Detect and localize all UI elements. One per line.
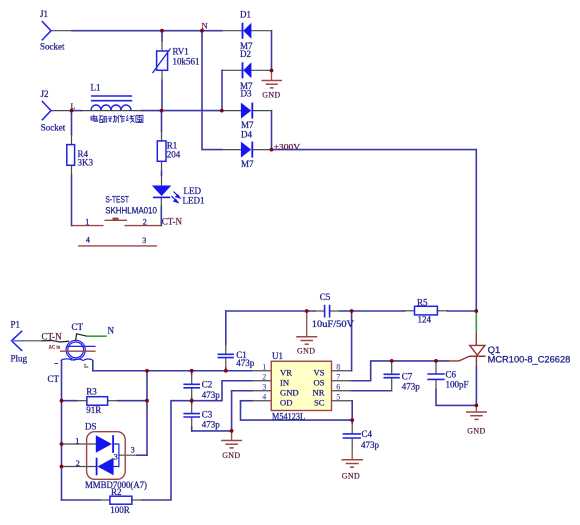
svg-text:100pF: 100pF xyxy=(446,380,469,390)
svg-text:LED1: LED1 xyxy=(183,195,205,205)
svg-text:6: 6 xyxy=(336,383,340,392)
svg-text:3: 3 xyxy=(131,446,135,455)
svg-text:3: 3 xyxy=(114,453,118,462)
svg-text:C5: C5 xyxy=(320,292,331,302)
svg-text:3: 3 xyxy=(262,383,266,392)
svg-text:MMBD7000(A7): MMBD7000(A7) xyxy=(85,480,147,490)
svg-text:1: 1 xyxy=(75,437,79,446)
svg-text:473p: 473p xyxy=(202,419,221,429)
svg-text:L1: L1 xyxy=(91,83,101,93)
svg-text:C7: C7 xyxy=(402,371,413,381)
svg-text:473p: 473p xyxy=(236,358,255,368)
svg-text:3: 3 xyxy=(142,236,146,245)
svg-text:10uF/50V: 10uF/50V xyxy=(312,319,355,329)
svg-text:473p: 473p xyxy=(361,440,380,450)
svg-text:473p: 473p xyxy=(202,390,221,400)
svg-text:GND: GND xyxy=(280,388,299,398)
svg-text:C4: C4 xyxy=(362,429,373,439)
svg-text:124: 124 xyxy=(418,315,432,325)
svg-text:8: 8 xyxy=(336,363,340,372)
svg-text:R5: R5 xyxy=(417,297,428,307)
svg-text:SC: SC xyxy=(314,398,325,408)
svg-text:4: 4 xyxy=(86,235,90,244)
svg-text:CT-N: CT-N xyxy=(42,332,63,342)
svg-text:AC in: AC in xyxy=(49,346,61,351)
svg-text:DS: DS xyxy=(85,422,97,432)
svg-text:5: 5 xyxy=(336,393,340,402)
svg-text:91R: 91R xyxy=(86,405,101,415)
svg-text:P1: P1 xyxy=(11,320,21,330)
svg-text:GND: GND xyxy=(467,427,485,436)
svg-text:M54123L: M54123L xyxy=(272,412,305,422)
svg-text:3K3: 3K3 xyxy=(78,158,94,168)
svg-text:Socket: Socket xyxy=(40,42,65,52)
svg-text:GND: GND xyxy=(297,347,315,356)
svg-text:N: N xyxy=(202,21,208,31)
svg-text:J2: J2 xyxy=(41,89,49,99)
svg-text:R3: R3 xyxy=(86,386,97,396)
svg-text:D4: D4 xyxy=(241,130,252,140)
svg-text:Plug: Plug xyxy=(11,354,28,364)
svg-text:D3: D3 xyxy=(241,89,252,99)
svg-text:OD: OD xyxy=(280,398,292,408)
svg-text:U1: U1 xyxy=(272,351,283,361)
svg-text:10k561: 10k561 xyxy=(173,57,200,67)
svg-text:100R: 100R xyxy=(110,505,130,515)
svg-text:M7: M7 xyxy=(241,159,254,169)
svg-text:C6: C6 xyxy=(446,370,457,380)
svg-text:D2: D2 xyxy=(240,49,251,59)
svg-text:GND: GND xyxy=(222,451,240,460)
svg-text:IN: IN xyxy=(280,378,290,388)
svg-text:C2: C2 xyxy=(202,380,213,390)
svg-text:D1: D1 xyxy=(240,10,251,20)
svg-text:N: N xyxy=(108,326,115,336)
svg-text:C3: C3 xyxy=(202,410,213,420)
svg-text:NR: NR xyxy=(313,388,325,398)
svg-text:2: 2 xyxy=(262,373,266,382)
svg-text:M7: M7 xyxy=(241,120,254,130)
svg-text:7: 7 xyxy=(336,373,340,382)
svg-text:SKHHLMA010: SKHHLMA010 xyxy=(105,206,157,217)
svg-text:1: 1 xyxy=(85,217,89,226)
svg-text:OS: OS xyxy=(314,378,325,388)
svg-text:2: 2 xyxy=(76,459,80,468)
svg-text:+300V: +300V xyxy=(274,141,301,151)
svg-text:J1: J1 xyxy=(40,9,48,19)
svg-text:VR: VR xyxy=(280,368,292,378)
svg-text:RV1: RV1 xyxy=(173,47,189,57)
svg-text:CT-N: CT-N xyxy=(162,216,183,226)
svg-text:MCR100-8_C26628: MCR100-8_C26628 xyxy=(488,354,571,365)
svg-text:1: 1 xyxy=(262,363,266,372)
svg-text:S-TEST: S-TEST xyxy=(105,195,129,206)
svg-text:L: L xyxy=(71,102,76,111)
svg-text:473p: 473p xyxy=(402,382,421,392)
svg-text:GND: GND xyxy=(342,471,360,480)
svg-text:VS: VS xyxy=(314,368,325,378)
svg-text:Socket: Socket xyxy=(41,122,66,132)
svg-text:CT: CT xyxy=(72,322,84,332)
svg-text:2: 2 xyxy=(143,217,147,226)
svg-text:GND: GND xyxy=(262,91,280,100)
svg-text:4: 4 xyxy=(262,393,266,402)
svg-text:204: 204 xyxy=(167,150,181,160)
svg-text:CT: CT xyxy=(48,374,60,384)
